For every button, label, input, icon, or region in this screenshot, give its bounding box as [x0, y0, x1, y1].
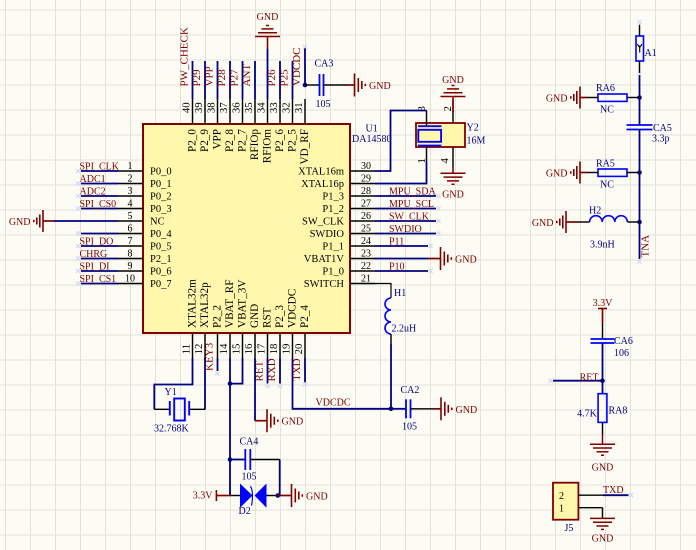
ground GND below RA8 [590, 444, 615, 473]
value NC (RA6) [600, 105, 614, 116]
Y2 pin 2 stub [442, 100, 454, 124]
wire net P28 (pin 37) [229, 61, 231, 99]
pin 37 (P2_8) top [218, 99, 236, 152]
svg-text:TXD: TXD [291, 358, 303, 381]
svg-text:SW_CLK: SW_CLK [302, 217, 344, 228]
no-ERC marker A1 bottom [637, 72, 641, 76]
svg-text:VD_RF: VD_RF [299, 129, 311, 164]
net label VDCDC (top) [291, 47, 303, 86]
svg-text:GND: GND [257, 12, 279, 23]
svg-text:ADC1: ADC1 [80, 174, 106, 185]
wire net TXD (J5) [603, 494, 629, 496]
svg-text:NC: NC [600, 105, 614, 116]
svg-text:GND: GND [546, 94, 568, 105]
net label P11 [389, 237, 404, 248]
no-ERC marker right wire y=208.5 [436, 206, 440, 210]
wire RET node to RA8 [602, 381, 604, 394]
svg-text:GND: GND [282, 417, 304, 428]
designator J5 [565, 523, 574, 534]
svg-text:CA2: CA2 [401, 385, 420, 396]
designator Y2 [467, 123, 479, 134]
designator CA4 [240, 437, 259, 448]
svg-text:P2_3: P2_3 [274, 305, 286, 328]
svg-text:U1: U1 [366, 124, 378, 135]
pin 38 (VPP) top [205, 99, 223, 150]
svg-text:Y2: Y2 [467, 123, 479, 134]
Y2 pin 1 stub [416, 146, 428, 164]
svg-text:J5: J5 [565, 523, 574, 534]
junction RET/RA8 [600, 378, 605, 383]
svg-text:P2_0: P2_0 [186, 129, 198, 152]
wire RA5 to ground [580, 172, 598, 174]
net label RXD [266, 358, 278, 381]
svg-text:VPP: VPP [204, 66, 216, 86]
connector J5 body [553, 483, 578, 520]
junction pin 31 / CA3 [303, 83, 308, 88]
Y1 left lead [154, 408, 170, 410]
no-ERC marker KEY3 end [215, 371, 219, 375]
svg-text:31: 31 [293, 102, 305, 113]
svg-text:35: 35 [243, 102, 255, 113]
wire net P26 (pin 33) [279, 61, 281, 99]
svg-text:RET: RET [580, 373, 599, 384]
wire pin 11 to Y1 [154, 358, 192, 409]
net label P29 [191, 69, 203, 87]
svg-text:22: 22 [361, 261, 371, 272]
net label SPI_DI [80, 262, 110, 273]
wire net MPU_SCL (pin 27) [375, 208, 436, 210]
svg-text:5: 5 [128, 211, 133, 222]
designator A1 [645, 48, 657, 59]
svg-text:P10: P10 [389, 262, 405, 273]
svg-text:16M: 16M [467, 136, 486, 147]
no-ERC marker right wire y=221 [436, 219, 440, 223]
wire net CHRG (pin 8) [81, 258, 118, 260]
net label MPU_SCL [389, 199, 434, 210]
no-ERC marker right wire y=271 [428, 269, 432, 273]
designator CA6 [614, 336, 633, 347]
svg-text:NC: NC [150, 217, 165, 228]
svg-text:VBAT1V: VBAT1V [304, 254, 345, 265]
svg-text:P27: P27 [229, 69, 241, 87]
no-ERC marker left pin 10 [76, 281, 80, 285]
svg-text:SPI_DI: SPI_DI [80, 262, 110, 273]
svg-text:P0_4: P0_4 [150, 229, 172, 240]
svg-text:4.7K: 4.7K [577, 409, 598, 420]
svg-text:ADC2: ADC2 [80, 187, 106, 198]
svg-text:P0_6: P0_6 [150, 267, 172, 278]
pin 10 (P0_7) left [118, 274, 172, 291]
pin 9 (P0_6) left [118, 261, 172, 278]
junction D2 / CA4 / GND [276, 493, 281, 498]
net label CHRG [80, 249, 108, 260]
designator H2 [589, 206, 601, 217]
svg-text:11: 11 [180, 344, 192, 354]
net label SWDIO [389, 224, 422, 235]
wire net P25 (pin 32) [292, 61, 294, 99]
no-ERC marker right wire y=233.5 [436, 231, 440, 235]
diode D2 [240, 484, 267, 508]
svg-text:10: 10 [125, 274, 135, 285]
net label PW_CHECK [179, 27, 191, 86]
designator U1 [366, 124, 378, 135]
net label RET (horizontal) [580, 373, 599, 384]
wire net SPI_CS0 (pin 4) [81, 208, 118, 210]
wire H2 right lead [627, 221, 639, 223]
no-ERC marker RET end [265, 384, 269, 388]
ground GND below Y2 pin 4 [441, 167, 466, 201]
no-ERC marker A1 top [637, 20, 641, 24]
svg-text:28: 28 [361, 186, 371, 197]
pin 21 (SWITCH) right [304, 274, 375, 291]
designator RA8 [609, 406, 628, 417]
wire D2 left lead [231, 495, 240, 497]
svg-text:RST: RST [261, 307, 273, 328]
wire RA5 node to H2 node [639, 173, 641, 223]
wire RA5 right lead [627, 172, 640, 174]
svg-text:14: 14 [218, 343, 230, 354]
svg-text:XTAL32p: XTAL32p [199, 282, 211, 328]
svg-text:P2_2: P2_2 [211, 305, 223, 328]
pin 14 (VBAT_RF) bottom [218, 280, 236, 359]
pin 18 (P2_3) bottom [268, 305, 286, 358]
crystal Y2 body [416, 123, 465, 147]
svg-text:37: 37 [218, 102, 230, 113]
ground GND at pin 16 [267, 409, 303, 432]
wire CA6 to RET node [602, 343, 604, 381]
wire pin 21 to H1 [375, 284, 391, 299]
svg-text:XTAL32m: XTAL32m [186, 279, 198, 328]
svg-text:GND: GND [306, 492, 328, 503]
wire net RET (pin 17) [267, 358, 269, 384]
svg-text:P1_3: P1_3 [322, 192, 344, 203]
svg-text:33: 33 [268, 102, 280, 113]
no-ERC marker right wire y=246 [428, 244, 432, 248]
pin 23 (VBAT1V) right [304, 249, 375, 266]
pin 8 (P2_1) left [118, 249, 172, 266]
wire pin 23 to ground [375, 258, 441, 260]
wire CA5 upper [639, 98, 641, 126]
wire CA3 to ground [324, 84, 355, 86]
pin 3 (P0_2) left [118, 186, 172, 203]
pin 29 (XTAL16p) right [301, 174, 375, 191]
resistor RA6 [598, 94, 627, 101]
svg-text:XTAL16m: XTAL16m [298, 167, 344, 178]
power port 3.3V (top) [593, 298, 614, 323]
svg-text:SPI_DO: SPI_DO [80, 237, 114, 248]
pin 15 (VBAT_3V) bottom [230, 280, 248, 358]
resistor RA8 [598, 394, 607, 423]
net label P27 [229, 69, 241, 87]
designator CA5 [653, 123, 672, 134]
pin 7 (P0_5) left [118, 236, 172, 253]
net label ADC2 [80, 187, 106, 198]
net label P10 [389, 262, 405, 273]
designator RA5 [596, 159, 615, 170]
wire H1 to VDCDC node [390, 334, 392, 409]
svg-text:15: 15 [230, 344, 242, 355]
pin 19 (VDCDC) bottom [280, 289, 298, 358]
svg-text:GND: GND [532, 218, 554, 229]
svg-text:RA8: RA8 [609, 406, 628, 417]
wire net ANT (pin 35) [254, 61, 256, 99]
net label SW_CLK [389, 212, 430, 223]
wire net RXD (pin 18) [279, 358, 281, 384]
svg-text:32: 32 [280, 102, 292, 113]
svg-text:8: 8 [128, 249, 133, 260]
antenna A1 [636, 36, 644, 61]
net label SPI_DO [80, 237, 114, 248]
svg-text:P2_9: P2_9 [199, 129, 211, 152]
no-ERC marker left pin 9 [76, 269, 80, 273]
svg-text:3.3V: 3.3V [593, 298, 614, 309]
designator CA2 [401, 385, 420, 396]
junction A1/RA6/CA5 [637, 95, 642, 100]
svg-text:TNA: TNA [640, 235, 652, 258]
svg-text:23: 23 [361, 249, 371, 260]
svg-text:7: 7 [128, 236, 133, 247]
svg-text:PW_CHECK: PW_CHECK [179, 27, 191, 86]
net label VDCDC (bottom) [316, 398, 351, 409]
net label KEY3 [204, 342, 216, 371]
svg-text:6: 6 [128, 224, 133, 235]
svg-text:D2: D2 [239, 506, 251, 517]
wire RA8 to ground [602, 422, 604, 444]
wire net P27 (pin 36) [242, 61, 244, 99]
wire A1 top lead [639, 25, 641, 36]
svg-text:P0_1: P0_1 [150, 179, 172, 190]
wire CA4 left [230, 459, 245, 461]
svg-text:SWITCH: SWITCH [304, 279, 345, 290]
svg-text:4: 4 [128, 199, 133, 210]
svg-text:36: 36 [230, 102, 242, 113]
junction VDCDC / H1 / CA2 [389, 407, 394, 412]
svg-text:VDCDC: VDCDC [286, 289, 298, 328]
net label SPI_CS1 [80, 274, 117, 285]
wire RA6 to ground [580, 97, 598, 99]
ground GND at pin 5 [9, 210, 43, 232]
ground GND right of CA2 [441, 397, 477, 420]
no-ERC marker TXD end [303, 382, 307, 386]
svg-text:3.3p: 3.3p [652, 134, 670, 145]
wire net SWDIO (pin 25) [375, 233, 436, 235]
wire RA6 right lead [627, 97, 640, 99]
svg-text:GND: GND [546, 169, 568, 180]
no-ERC marker TXD J5 end [629, 493, 633, 497]
svg-text:GND: GND [369, 81, 391, 92]
wire net MPU_SDA (pin 28) [375, 195, 436, 197]
ground GND below J5 [590, 518, 615, 544]
svg-text:P1_0: P1_0 [322, 267, 344, 278]
no-ERC marker left pin 6 [76, 231, 80, 235]
wire pin 15 jog [230, 358, 243, 384]
svg-text:P25: P25 [279, 69, 291, 87]
pin 40 (P2_0) top [180, 99, 198, 152]
wire net TXD (pin 20) [304, 358, 306, 382]
pin 32 (P2_5) top [280, 99, 298, 152]
Y1 right lead [189, 408, 205, 410]
net label ADC1 [80, 174, 106, 185]
svg-text:26: 26 [361, 211, 371, 222]
value 2.2uH [392, 324, 417, 335]
svg-text:19: 19 [280, 344, 292, 355]
svg-text:24: 24 [361, 236, 371, 247]
svg-text:1: 1 [559, 504, 564, 515]
capacitor CA5 [627, 125, 653, 130]
net label ANT [640, 235, 652, 258]
ground GND left of RA5 [546, 162, 580, 184]
wire net SPI_DO (pin 7) [81, 245, 118, 247]
wire pin 14 down [229, 358, 231, 496]
svg-text:21: 21 [361, 274, 371, 285]
svg-text:4: 4 [439, 158, 451, 164]
pin 5 (NC) left [118, 211, 165, 228]
pin 2 (P0_1) left [118, 174, 172, 191]
Y2 pin 4 stub [439, 147, 453, 167]
svg-text:TXD: TXD [603, 485, 624, 496]
svg-text:106: 106 [614, 348, 629, 359]
svg-text:P0_5: P0_5 [150, 242, 172, 253]
svg-text:1: 1 [128, 161, 133, 172]
svg-text:MPU_SDA: MPU_SDA [389, 187, 436, 198]
pin 34 (RFIOm) top [255, 99, 273, 163]
pin 22 (P1_0) right [322, 261, 375, 278]
net label SPI_CS0 [80, 199, 117, 210]
svg-text:2.2uH: 2.2uH [392, 324, 417, 335]
svg-text:39: 39 [193, 102, 205, 113]
svg-text:CHRG: CHRG [80, 249, 108, 260]
pin 35 (RFIOp) top [243, 99, 261, 160]
pin 1 (P0_0) left [118, 161, 172, 178]
svg-text:2: 2 [559, 491, 564, 502]
inductor H1 [385, 298, 391, 334]
wire net ADC1 (pin 2) [81, 183, 118, 185]
wire pin 34 to ground [267, 37, 269, 100]
svg-text:P11: P11 [389, 237, 404, 248]
wire net ADC2 (pin 3) [81, 195, 118, 197]
svg-text:P1_2: P1_2 [322, 204, 344, 215]
pin 20 (P2_4) bottom [293, 305, 311, 358]
no-ERC marker right wire y=196 [436, 194, 440, 198]
crystal Y1 [170, 399, 189, 421]
no-ERC marker ANT end [637, 259, 641, 263]
wire net P29 (pin 39) [204, 61, 206, 99]
designator Y1 [165, 387, 177, 398]
wire CA3 left [305, 84, 320, 86]
wire 3.3V to CA6 [602, 323, 604, 339]
pin 13 (P2_2) bottom [211, 305, 223, 358]
svg-text:P2_7: P2_7 [236, 129, 248, 152]
svg-text:P0_7: P0_7 [150, 279, 172, 290]
svg-text:A1: A1 [645, 48, 657, 59]
svg-text:RFIOp: RFIOp [249, 129, 261, 160]
svg-text:27: 27 [361, 199, 371, 210]
power ground GND above pin 34 [255, 12, 280, 37]
power port 3.3V (left) [193, 490, 231, 502]
capacitor CA6 [591, 339, 615, 343]
svg-text:30: 30 [361, 161, 371, 172]
svg-text:RA6: RA6 [596, 83, 615, 94]
svg-text:P0_3: P0_3 [150, 204, 172, 215]
svg-text:18: 18 [268, 344, 280, 355]
value 106 [614, 348, 629, 359]
no-ERC marker left pin 1 [76, 169, 80, 173]
svg-text:SPI_CS0: SPI_CS0 [80, 199, 117, 210]
svg-text:P29: P29 [191, 69, 203, 87]
svg-text:NC: NC [600, 180, 614, 191]
svg-text:GND: GND [9, 217, 31, 228]
wire pin 6 stub [81, 233, 118, 235]
no-ERC marker left pin 3 [76, 194, 80, 198]
svg-text:3.9nH: 3.9nH [590, 240, 615, 251]
capacitor CA3 [320, 74, 324, 96]
pin 16 (GND) bottom [243, 304, 261, 358]
J5 pin 1 [559, 504, 603, 515]
wire to ground right of D2 [278, 495, 292, 497]
svg-text:9: 9 [128, 261, 133, 272]
wire net ANT [639, 222, 641, 259]
net label ANT [241, 64, 253, 87]
wire pin 5 to ground [43, 220, 118, 222]
wire pin 16 to ground [255, 358, 267, 421]
svg-text:GND: GND [455, 255, 477, 266]
no-ERC marker VDCDC top [303, 45, 307, 49]
ground GND left of H2 [532, 211, 566, 233]
svg-text:CA3: CA3 [315, 59, 334, 70]
designator D2 [239, 506, 251, 517]
pin 31 (VD_RF) top [293, 99, 311, 164]
svg-text:38: 38 [205, 102, 217, 113]
pin 39 (P2_9) top [193, 99, 211, 152]
svg-text:P0_0: P0_0 [150, 167, 172, 178]
capacitor CA4 [245, 449, 250, 470]
svg-text:105: 105 [316, 99, 331, 110]
svg-text:H1: H1 [394, 288, 406, 299]
wire J5 pin1 to ground [602, 508, 604, 519]
value 16M [467, 136, 486, 147]
svg-text:VPP: VPP [211, 129, 223, 150]
pin 27 (P1_2) right [322, 199, 375, 216]
net label P25 [279, 69, 291, 87]
svg-text:VDCDC: VDCDC [316, 398, 351, 409]
designator CA3 [315, 59, 334, 70]
junction CA4 tap [228, 457, 233, 462]
junction CA5/RA5 [637, 170, 642, 175]
pin 12 (XTAL32p) bottom [193, 282, 211, 358]
svg-text:GND: GND [456, 405, 478, 416]
no-ERC marker left pin 8 [76, 256, 80, 260]
svg-text:SPI_CS1: SPI_CS1 [80, 274, 117, 285]
wire CA5 lower [639, 130, 641, 173]
wire D2 right lead [267, 495, 278, 497]
junction pin14/pin15 [228, 381, 233, 386]
no-ERC marker left pin 2 [76, 181, 80, 185]
svg-text:P2_1: P2_1 [150, 254, 172, 265]
svg-text:3: 3 [128, 186, 133, 197]
pin 30 (XTAL16m) right [298, 161, 375, 178]
value 105 (CA4) [242, 472, 257, 483]
inductor H2 [590, 216, 628, 222]
ground GND above Y2 pin 2 [441, 75, 466, 113]
pin 25 (SWDIO) right [310, 224, 375, 241]
wire net RET (horizontal) [553, 380, 603, 382]
net label SPI_CLK [80, 162, 120, 173]
designator RA6 [596, 83, 615, 94]
Y2 pin 3 stub [416, 106, 428, 126]
svg-text:GND: GND [442, 75, 464, 86]
svg-text:ANT: ANT [241, 64, 253, 87]
svg-text:CA6: CA6 [614, 336, 633, 347]
